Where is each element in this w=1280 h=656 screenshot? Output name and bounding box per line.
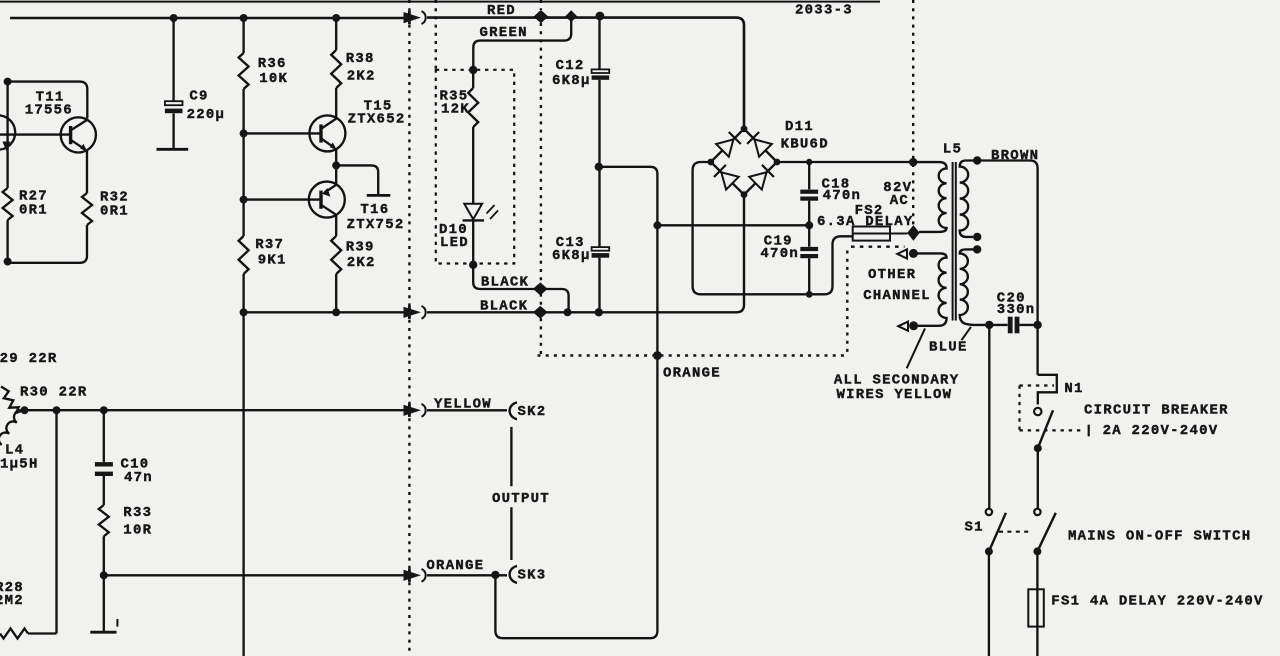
capacitor C13 (electrolytic)	[598, 167, 600, 247]
dashed transformer boundary vertical at x=913	[912, 0, 914, 226]
svg-text:AC: AC	[890, 193, 909, 209]
svg-text:C12: C12	[556, 58, 585, 74]
svg-text:R39: R39	[346, 240, 375, 256]
resistor R35	[468, 70, 478, 204]
svg-text:CHANNEL: CHANNEL	[863, 288, 931, 304]
wire: S1 pole 2 to FS1 and mains bottom	[1036, 551, 1038, 656]
dashed boundary vertical at x=436 above D10 box	[435, 0, 437, 69]
node: C18/C19 midpoint	[805, 221, 813, 229]
svg-text:C9: C9	[189, 89, 208, 105]
ground (R33/C10)	[90, 631, 116, 634]
node: S1 pole 2 lower terminal	[1033, 547, 1041, 555]
transistor T16 (PNP ZTX752)	[309, 182, 345, 218]
switch S1 pole 1 wire from C20 node	[988, 325, 990, 508]
resistor R28 (horizontal, clipped)	[0, 629, 57, 639]
wire: BLACK lead from D10 box to -V rail	[473, 265, 568, 313]
svg-text:BLUE: BLUE	[929, 339, 968, 355]
transformer L5 primary winding upper	[960, 161, 978, 237]
wire: left vertical x=7.6 (T10 collector/emitter, R27 chain)	[6, 82, 8, 188]
node: SK3 return junction	[491, 571, 499, 579]
svg-text:R37: R37	[255, 237, 284, 253]
svg-text:BROWN: BROWN	[991, 148, 1039, 164]
diode D11b (right-top edge)	[755, 139, 772, 156]
node: C12/C13 centre junction	[595, 163, 603, 171]
board-edge connector arrow on RED rail	[408, 11, 411, 24]
node: S1 branch junction	[985, 321, 993, 329]
resistor R37	[239, 236, 249, 274]
wire: R28 branch vertical	[55, 410, 57, 633]
leader line: ALL SECONDARY WIRES YELLOW	[907, 328, 925, 368]
transistor T15 (NPN ZTX652)	[309, 115, 345, 151]
svg-text:N1: N1	[1064, 381, 1083, 397]
svg-text:2033-3: 2033-3	[795, 3, 853, 19]
wire: OUTPUT bus SK2 to SK3	[510, 427, 512, 560]
node: bridge AC right vertex	[774, 159, 781, 166]
node: R27 bottom junction	[4, 258, 12, 266]
svg-text:MAINS ON-OFF SWITCH: MAINS ON-OFF SWITCH	[1068, 529, 1251, 545]
transformer L5 secondary winding (this channel)	[913, 162, 946, 232]
node: primary tap upper	[973, 233, 981, 241]
node: R39 chain on -V rail	[332, 308, 340, 316]
transistor T10 (left, clipped at image edge)	[0, 115, 15, 149]
svg-text:SK2: SK2	[518, 404, 547, 420]
node: GREEN wire to R35 (top of box)	[469, 66, 477, 74]
svg-text:2K2: 2K2	[347, 255, 376, 271]
node: primary tap lower	[973, 245, 981, 253]
svg-text:OTHER: OTHER	[868, 267, 916, 283]
svg-text:D11: D11	[785, 119, 814, 135]
svg-text:T16: T16	[360, 202, 389, 218]
svg-text:10R: 10R	[123, 522, 152, 538]
resistor R38	[331, 50, 341, 88]
svg-text:47n: 47n	[124, 470, 153, 486]
svg-text:S1: S1	[965, 520, 984, 536]
svg-text:KBU6D: KBU6D	[781, 137, 829, 153]
fuse FS2 6.3A delay	[853, 227, 890, 241]
switch S1 pole 2 contact	[1034, 509, 1040, 515]
board-edge connector arrow on ORANGE output	[408, 569, 411, 582]
board-edge connector arrow on BLACK rail	[408, 306, 411, 319]
wire: +V RED rail from left board to bridge top	[10, 17, 404, 20]
node: C9 junction on RED rail	[170, 14, 178, 22]
svg-text:470n: 470n	[823, 188, 862, 204]
node: C12 junction on RED rail	[596, 12, 605, 21]
svg-text:OUTPUT: OUTPUT	[492, 491, 550, 507]
svg-text:2M2: 2M2	[0, 593, 24, 609]
svg-text:220µ: 220µ	[187, 107, 226, 123]
svg-text:R38: R38	[346, 51, 375, 67]
capacitor C20	[1008, 317, 1013, 334]
svg-text:9K1: 9K1	[258, 252, 287, 268]
svg-text:10K: 10K	[259, 71, 288, 87]
svg-text:ZTX652: ZTX652	[348, 111, 406, 127]
svg-text:6K8µ: 6K8µ	[552, 73, 591, 89]
resistor R39	[331, 236, 341, 274]
node: T16 base junction	[240, 196, 248, 204]
wire: BROWN primary lead	[977, 161, 1037, 375]
socket SK3	[510, 566, 517, 583]
socket SK2	[510, 402, 517, 419]
resistor R36	[239, 53, 249, 89]
dashed boundary horizontal at y=355.5	[538, 354, 846, 356]
capacitor C9 lead from RED rail	[172, 18, 174, 101]
node: chain junction on RED rail	[240, 14, 248, 22]
wire: AC2 from bridge right vertex to transformer	[777, 161, 913, 163]
node: ORANGE output junction at R33	[100, 571, 108, 579]
dashed boundary horizontal at y=246.7	[851, 245, 905, 247]
LED D10	[464, 204, 482, 219]
diode D11c (bottom-left edge)	[721, 172, 738, 189]
page top border line	[0, 1, 880, 3]
circuit breaker N1 thermal element	[1038, 375, 1057, 405]
diode D11d (bottom-right edge)	[749, 172, 766, 189]
board-edge connector arrow on YELLOW output	[408, 404, 411, 417]
node: R28 branch junction	[53, 406, 61, 414]
svg-text:R36: R36	[258, 56, 287, 72]
inductor L4 (diagonal coil)	[0, 410, 25, 444]
circuit breaker N1 contact circle	[1034, 408, 1041, 415]
svg-text:SK3: SK3	[518, 567, 547, 583]
dashed outline box around R35/D10	[436, 70, 514, 264]
node: S1 pole 1 lower terminal	[985, 547, 993, 555]
wire: output node rail to YELLOW arrow	[25, 409, 405, 411]
svg-text:R29 22R: R29 22R	[0, 351, 58, 367]
svg-text:470n: 470n	[760, 246, 799, 262]
svg-text:LED: LED	[440, 235, 469, 251]
node: T15 base junction	[240, 129, 248, 137]
dashed box around N1	[1020, 384, 1055, 386]
node: -V rail left end	[240, 308, 248, 316]
wire: GREEN wire from RED rail down to R35/D10 box	[473, 18, 571, 71]
switch S1 pole 1 blade	[989, 513, 1006, 552]
svg-text:17556: 17556	[25, 103, 73, 119]
node: C10 branch junction	[100, 406, 108, 414]
dashed boundary vertical at x=847 (other-channel area)	[846, 251, 848, 356]
wire: T16 base from chain	[244, 198, 321, 200]
diode D11a (left-top edge)	[716, 139, 733, 156]
dashed boundary vertical at x=541	[540, 23, 542, 356]
node: C13 junction on -V rail	[595, 308, 603, 316]
dashed board boundary vertical at x=409	[408, 0, 410, 656]
ground (C9)	[157, 148, 189, 151]
svg-text:R33: R33	[123, 505, 152, 521]
node: ORANGE centre-tap node on dashed boundary	[653, 351, 662, 360]
svg-text:12K: 12K	[441, 102, 470, 118]
node: N1 lower terminal	[1034, 444, 1042, 452]
node: primary top terminal	[973, 156, 981, 164]
wire: centre-tap branch to C18/C19 midpoint	[657, 224, 809, 226]
capacitor C18 (snubber)	[808, 162, 810, 189]
capacitor C19	[808, 225, 810, 246]
switch S1 pole 1 contact	[986, 509, 992, 515]
ground (T16 bias)	[367, 194, 391, 197]
svg-text:RED: RED	[487, 3, 516, 19]
leader line: BLUE label	[962, 327, 972, 340]
transformer L5 secondary winding (other channel)	[913, 253, 946, 325]
svg-text:GREEN: GREEN	[480, 25, 528, 41]
svg-text:6.3A DELAY: 6.3A DELAY	[817, 214, 914, 230]
switch S1 pole 2 blade	[1037, 513, 1055, 552]
resistor R30 (diagonal)	[1, 387, 25, 413]
node: BLACK lead joins -V rail	[564, 308, 572, 316]
node: BLACK lead diamond on dashed line	[534, 283, 547, 295]
svg-text:0R1: 0R1	[100, 203, 129, 219]
wire: S1 pole 1 to mains bottom	[988, 551, 990, 656]
node: bridge + vertex	[741, 125, 748, 132]
svg-text:BLACK: BLACK	[481, 275, 529, 291]
wire: base line between T10 and T11	[0, 133, 71, 135]
svg-text:6K8µ: 6K8µ	[552, 248, 591, 264]
resistor R32	[82, 193, 92, 225]
svg-text:330n: 330n	[997, 302, 1036, 318]
svg-text:YELLOW: YELLOW	[434, 396, 492, 412]
wire: YELLOW lead to SK2	[427, 409, 507, 411]
svg-text:CIRCUIT BREAKER: CIRCUIT BREAKER	[1084, 402, 1229, 418]
wire: R36/R37 chain vertical x=243.6	[242, 18, 244, 656]
capacitor C10	[103, 410, 105, 462]
wire: primary bottom lead to C20	[973, 324, 1008, 326]
other-channel connector arrow+dot (upper)	[897, 249, 907, 258]
node: GREEN wire take-off diamond	[566, 11, 576, 21]
wire: collector loop from node A to T11	[8, 82, 88, 119]
svg-text:L5: L5	[943, 141, 962, 157]
node: R30/L4 junction	[21, 406, 29, 414]
resistor R33	[99, 505, 109, 631]
wire: R27/R32 bottom junction rail	[8, 220, 87, 263]
svg-text:BLACK: BLACK	[480, 298, 528, 314]
node: centre-tap branch junction	[653, 221, 661, 229]
wire: centre-tap from C12/C13 junction down to ORANGE node and SK3 loop	[495, 167, 657, 638]
fuse FS1 4A delay	[1028, 589, 1044, 626]
node: bridge AC left vertex	[707, 159, 714, 166]
node: bridge - vertex	[741, 191, 748, 198]
wire: emitter junction to bias ground	[336, 165, 378, 194]
node: FS2 to transformer diamond connector	[908, 226, 919, 240]
svg-text:2K2: 2K2	[347, 69, 376, 85]
node: T15/T16 emitter junction	[332, 161, 340, 169]
circuit breaker N1 blade	[1038, 410, 1053, 448]
dashed gang link between S1 blades	[999, 531, 1029, 533]
node: AC2 transformer connector dot	[909, 158, 917, 166]
wire: -V BLACK rail	[244, 311, 404, 313]
svg-text:2A 220V-240V: 2A 220V-240V	[1103, 423, 1219, 439]
svg-text:WIRES YELLOW: WIRES YELLOW	[837, 387, 953, 403]
wire: T11 emitter to R32	[86, 151, 88, 193]
node: dashed-line diamond on -V rail	[534, 307, 547, 319]
node: R38 junction on RED rail	[332, 14, 340, 22]
bridge rectifier D11 KBU6D: diamond frame	[711, 129, 777, 195]
resistor R27	[3, 188, 13, 220]
capacitor C12 (electrolytic)	[598, 18, 600, 69]
svg-text:ORANGE: ORANGE	[426, 558, 484, 574]
svg-text:0R1: 0R1	[19, 202, 48, 218]
wire: R38/R39 chain vertical x=336.2	[335, 18, 337, 312]
svg-text:FS1 4A DELAY 220V-240V: FS1 4A DELAY 220V-240V	[1051, 593, 1263, 609]
wire: ORANGE output to arrow	[104, 574, 404, 576]
svg-text:R30 22R: R30 22R	[20, 384, 88, 400]
transformer L5 core	[953, 162, 956, 321]
wire: N1 to S1 pole 2	[1037, 448, 1039, 508]
transistor T11	[61, 117, 96, 152]
svg-text:ORANGE: ORANGE	[663, 365, 721, 381]
node: C19 on AC1 loop	[806, 291, 813, 298]
leader tick for 2A rating	[1088, 425, 1090, 437]
node: C20 right junction on BROWN lead	[1033, 321, 1041, 329]
node: RED rail / dashed-line diamond junction	[534, 11, 547, 23]
svg-text:1µ5H: 1µ5H	[0, 456, 39, 472]
wire: T15 base from chain	[244, 132, 321, 134]
svg-text:ZTX752: ZTX752	[347, 217, 405, 233]
capacitor C9 (electrolytic) plates	[165, 101, 183, 105]
wire: ORANGE lead to SK3	[427, 574, 507, 576]
transformer L5 primary winding lower	[960, 249, 978, 325]
node: D10 cathode (bottom of box)	[469, 261, 477, 269]
wire: AC1 loop from bridge left vertex to FS2	[693, 162, 853, 294]
other-channel connector arrow+dot (lower)	[898, 322, 908, 331]
node A: T11 collector loop top-left	[4, 78, 12, 86]
